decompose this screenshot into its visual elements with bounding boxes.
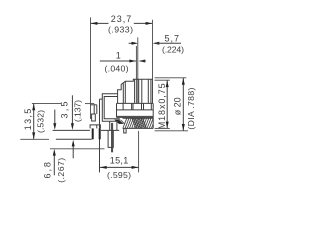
- dim M18x0,75 dimension line: [166, 80, 169, 128]
- dim (.137) label: [73, 100, 83, 122]
- dim 6,8 extension line: [50, 148, 105, 150]
- bracket top edge: [53, 129, 90, 131]
- body: horizontal edge y117.5: [117, 116, 154, 118]
- svg-text:15,1: 15,1: [110, 156, 129, 166]
- dim (.040) label: [105, 63, 129, 73]
- body: collar below block: [110, 121, 117, 130]
- dim 6,8 label: [43, 162, 53, 179]
- body: thread hatched band: [123, 118, 154, 128]
- bracket bottom edge: [56, 138, 92, 140]
- svg-text:(.040): (.040): [105, 63, 129, 73]
- body: horizontal edge y103.4: [117, 102, 154, 104]
- dim 13,5 top extension line: [32, 102, 94, 104]
- terminal: square lug: [92, 114, 96, 121]
- dim (.267) label: [56, 158, 66, 183]
- svg-text:6,8: 6,8: [43, 162, 53, 179]
- dim 3,5 top arrow: [71, 95, 74, 130]
- panel line left: [135, 46, 137, 103]
- body: front section internal verticals upper: [123, 79, 151, 103]
- dim 15,1 dimension line: [100, 166, 139, 169]
- svg-text:(DIA .788): (DIA .788): [186, 88, 196, 130]
- body: bottom edge: [101, 129, 119, 131]
- body: seal wedge: [114, 120, 124, 124]
- svg-text:(.933): (.933): [108, 24, 133, 34]
- panel line below: [138, 131, 140, 173]
- dim 5,7 arrows and leader: [129, 42, 181, 45]
- body: nut middle verticals: [123, 103, 151, 110]
- terminal: cap over bars: [90, 125, 100, 128]
- dim (.933) label: [108, 24, 133, 34]
- dim O20 bottom extension line: [155, 130, 188, 132]
- svg-text:ø 20: ø 20: [172, 97, 182, 115]
- body: left edge of nut: [116, 103, 118, 117]
- terminal: solder bar 1: [92, 128, 94, 139]
- svg-text:(.532): (.532): [36, 110, 46, 133]
- dim 13,5 dimension line: [32, 104, 35, 140]
- svg-text:(.267): (.267): [56, 158, 66, 183]
- svg-text:(.595): (.595): [107, 170, 131, 180]
- body: inner pin pair: [112, 123, 113, 152]
- svg-text:(.137): (.137): [73, 100, 83, 122]
- dim (.224) label: [162, 45, 184, 55]
- dim 5,7 label: [165, 34, 180, 44]
- dim (.532) label: [36, 110, 46, 133]
- terminal: right pin: [108, 130, 113, 147]
- body: horizontal edge y109.9: [117, 109, 154, 111]
- svg-text:23,7: 23,7: [111, 14, 132, 24]
- body: horizontal edge y116.2: [117, 115, 154, 117]
- dim 23,7 extension line right: [151, 20, 153, 79]
- terminal: wire left: [99, 99, 101, 172]
- dim 23,7 dimension line: [91, 22, 153, 25]
- terminal: hook verticals: [94, 105, 97, 114]
- dim (DIA .788) label: [186, 88, 196, 130]
- dim 1 label: [116, 51, 121, 61]
- terminal: solder bar 2: [99, 128, 101, 139]
- terminal: top hook horizontal: [90, 104, 97, 106]
- dim M18x0,75 top extension line: [155, 79, 170, 81]
- dim 23,7 extension line left: [90, 17, 92, 119]
- dim O20 label: [172, 97, 182, 115]
- dim 23,7 label: [111, 14, 132, 24]
- dim 6,8 top arrow: [53, 110, 56, 130]
- terminal: wire top horizontal: [100, 98, 103, 100]
- panel line right: [137, 37, 139, 103]
- dim (.595) label: [107, 170, 131, 180]
- dim M18x0,75 bottom extension line: [155, 127, 170, 129]
- dim 13,5 bottom extension line: [20, 138, 49, 140]
- svg-text:M18x0,75: M18x0,75: [157, 83, 167, 129]
- dim O20 dimension line: [182, 78, 185, 131]
- svg-text:13,5: 13,5: [23, 109, 33, 131]
- svg-text:5,7: 5,7: [165, 34, 180, 44]
- body: right face lower: [152, 103, 154, 128]
- dim 3,5 bottom arrow: [72, 140, 75, 159]
- body: rear block inner: [104, 97, 119, 122]
- svg-text:1: 1: [116, 51, 121, 61]
- dim M18x0,75 label: [157, 83, 167, 129]
- svg-text:3,5: 3,5: [59, 102, 69, 119]
- svg-text:(.224): (.224): [162, 45, 184, 55]
- dim O20 top extension line: [155, 77, 187, 79]
- dim 15,1 label: [110, 156, 129, 166]
- dim 13,5 label: [23, 109, 33, 131]
- body: stub below thread: [124, 129, 126, 134]
- dim 6,8 bottom arrow: [53, 149, 56, 175]
- body: front section upper profile: [118, 79, 153, 103]
- body: rear block outer: [102, 94, 119, 122]
- dim 1 leader: [100, 60, 146, 63]
- dim 3,5 label: [59, 102, 69, 119]
